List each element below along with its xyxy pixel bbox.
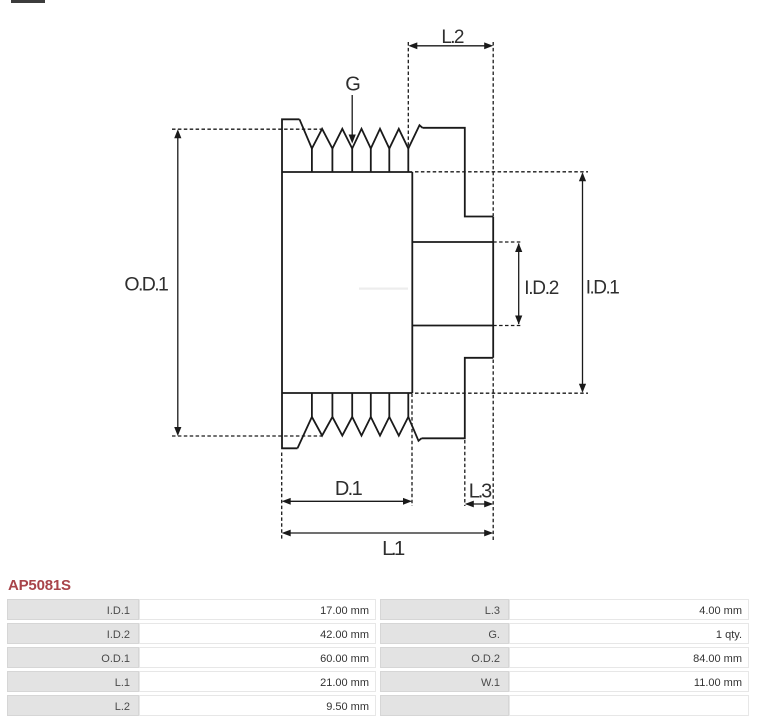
extension line I.D.1 bottom [415, 392, 588, 394]
faint watermark smudge [359, 288, 408, 290]
svg-text:I.D.2: I.D.2 [524, 278, 559, 299]
extension line I.D.1 top [415, 171, 588, 173]
bottom groove zigzag profile [298, 417, 422, 448]
arrowhead D.1 right [403, 498, 412, 505]
hub lower profile [422, 358, 494, 439]
extension line I.D.2 top [493, 241, 522, 243]
extension line L.1/L.3 right [492, 360, 494, 541]
arrowhead I.D.2 down [515, 316, 522, 325]
hub end face [492, 217, 494, 358]
bore bottom edge [412, 325, 493, 327]
extension line I.D.2 bottom [493, 325, 522, 327]
arrowhead L.2 right [484, 42, 493, 49]
hub upper profile [423, 128, 494, 217]
arrowhead D.1 left [282, 498, 291, 505]
svg-text:L.1: L.1 [382, 537, 405, 560]
part number [8, 577, 71, 594]
groove stem bottom 5 [388, 393, 390, 417]
top-left screenshot artifact bar [11, 0, 45, 3]
svg-text:L.2: L.2 [441, 27, 464, 48]
arrowhead I.D.2 up [515, 243, 522, 252]
extension line L.3 left [464, 440, 466, 506]
dimension line O.D.1 [177, 131, 179, 434]
groove stem top 1 [311, 149, 313, 173]
svg-text:G: G [345, 74, 361, 96]
body top edge [282, 171, 412, 173]
dimension line L.2 [410, 45, 492, 47]
leader line G [351, 95, 353, 136]
extension line L.2 right [492, 42, 494, 216]
arrowhead L.3 left [465, 501, 474, 508]
groove stem top 5 [388, 149, 390, 173]
arrowhead L.3 right [484, 501, 493, 508]
dimension line L.1 [284, 532, 492, 534]
dimension line L.3 [467, 503, 492, 505]
extension line D.1/L.1 left [281, 453, 283, 541]
groove stem top 6 [407, 149, 409, 173]
bore top edge [412, 241, 493, 243]
svg-text:D.1: D.1 [335, 478, 363, 500]
groove stem bottom 6 [407, 393, 409, 417]
pulley left flange outline [282, 119, 300, 448]
groove stem bottom 4 [370, 393, 372, 417]
arrowhead L.2 left [408, 42, 417, 49]
extension line L.2 left [407, 42, 409, 172]
extension line O.D.1 bottom [172, 435, 323, 437]
body bottom edge [282, 392, 412, 394]
body right edge [411, 172, 413, 393]
arrowhead L.1 left [282, 530, 291, 537]
top groove zigzag profile [300, 119, 423, 148]
svg-text:L.3: L.3 [469, 480, 493, 502]
groove stem bottom 2 [331, 393, 333, 417]
svg-text:O.D.1: O.D.1 [124, 273, 168, 295]
arrowhead I.D.1 up [579, 172, 586, 181]
extension line O.D.1 top [172, 128, 323, 130]
groove stem top 2 [331, 149, 333, 173]
groove stem bottom 1 [311, 393, 313, 417]
arrowhead O.D.1 down [174, 427, 181, 436]
dimension line I.D.2 [518, 244, 520, 325]
groove stem top 3 [351, 149, 353, 173]
arrowhead I.D.1 down [579, 384, 586, 393]
arrowhead O.D.1 up [174, 129, 181, 138]
groove stem bottom 3 [351, 393, 353, 417]
dimension line D.1 [284, 500, 411, 502]
arrowhead G down [349, 135, 356, 144]
arrowhead L.1 right [484, 530, 493, 537]
extension line D.1 right [411, 394, 413, 507]
dimension line I.D.1 [582, 174, 584, 392]
spec table [7, 599, 749, 719]
groove stem top 4 [370, 149, 372, 173]
svg-text:I.D.1: I.D.1 [586, 277, 620, 298]
